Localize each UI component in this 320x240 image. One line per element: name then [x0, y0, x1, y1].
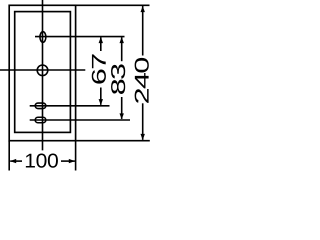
fixture outer rectangle	[9, 5, 75, 140]
extension line through circle	[0, 69, 85, 71]
arrowhead 240 up	[141, 6, 145, 12]
left extension line below fixture	[8, 141, 10, 171]
dim line 100 right shaft	[61, 160, 75, 162]
extension line through slot 1	[30, 105, 110, 107]
right extension line below fixture	[75, 141, 77, 171]
label 240	[135, 58, 149, 103]
arrowhead 83 down	[120, 113, 124, 119]
slot hole lower 2 (horizontal oval)	[35, 117, 46, 123]
label 83	[111, 64, 125, 94]
slot hole lower 1 (horizontal oval)	[35, 103, 46, 109]
dim line 67 upper shaft	[100, 37, 102, 51]
dim line 240 upper shaft	[142, 6, 144, 56]
dim line 83 lower shaft	[121, 97, 123, 119]
label 100	[26, 154, 58, 168]
extension line through slot 2	[30, 119, 130, 121]
arrowhead 67 up	[99, 37, 103, 43]
arrowhead 240 down	[141, 134, 145, 140]
label 67	[92, 54, 106, 83]
fixture inner rectangle	[15, 12, 71, 133]
arrowhead 100 right	[69, 159, 75, 163]
arrowhead 67 down	[99, 99, 103, 105]
dim line 240 lower shaft	[142, 103, 144, 140]
extension line through top slot	[35, 36, 125, 38]
dim line 100 left shaft	[10, 160, 22, 162]
dim line 67 lower shaft	[100, 88, 102, 105]
slot hole top (vertical oval)	[40, 32, 46, 43]
top extension line for 240	[76, 4, 150, 6]
circle hole	[37, 65, 48, 76]
arrowhead 83 up	[120, 37, 124, 43]
bottom extension line for 240	[76, 140, 150, 142]
dim line 83 upper shaft	[121, 37, 123, 61]
centerline vertical	[42, 0, 44, 150]
arrowhead 100 left	[10, 159, 16, 163]
